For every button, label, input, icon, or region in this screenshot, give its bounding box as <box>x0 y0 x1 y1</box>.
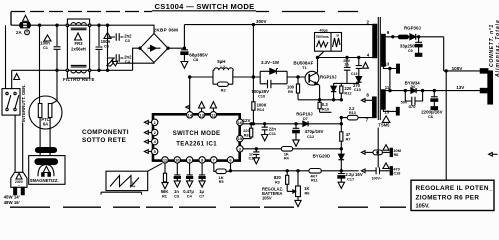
pin 3 <box>237 146 243 152</box>
resistor R5 1K between pin7 and pin6 <box>214 163 231 184</box>
svg-text:RGP10J: RGP10J <box>320 75 337 80</box>
diode D6 BYW34 <box>405 80 421 93</box>
pin 11 <box>162 157 168 163</box>
svg-text:R6: R6 <box>305 191 311 196</box>
transformer core <box>378 17 380 120</box>
oscillogram inset 40us 750Vrms <box>315 29 342 58</box>
capacitor C13 1n2kV <box>343 58 357 84</box>
wire bridge DC plus <box>168 25 184 49</box>
connector CN1 <box>480 69 492 104</box>
resistor R10 0.3 <box>318 102 329 111</box>
label power ratings <box>4 195 20 205</box>
svg-text:10: 10 <box>175 158 180 163</box>
capacitor C16 470 50V across diode <box>401 91 423 110</box>
svg-text:15: 15 <box>238 136 243 141</box>
pin 16 <box>237 119 243 125</box>
svg-text:8: 8 <box>366 92 369 97</box>
transformer feedback winding 8-7 <box>373 97 377 118</box>
svg-text:R11: R11 <box>311 179 318 183</box>
svg-text:C15: C15 <box>354 87 362 92</box>
pin 9 <box>186 157 192 163</box>
svg-text:C13: C13 <box>351 72 358 76</box>
resistor R7 47 <box>340 132 351 142</box>
capacitor C1 100n <box>40 25 60 70</box>
note box REGOLARE <box>411 180 494 210</box>
svg-text:2KBP 06M: 2KBP 06M <box>154 28 179 33</box>
pin 1 <box>144 119 158 125</box>
svg-text:D6: D6 <box>411 85 416 89</box>
svg-text:100V~: 100V~ <box>372 176 383 180</box>
capacitor C6 100n <box>101 25 111 70</box>
capacitor C14 with diode 270 C15 <box>353 58 368 93</box>
diode D9 RGP10J <box>320 75 337 100</box>
wire live rail <box>11 25 154 33</box>
degauss SMAGNETIZZ box <box>29 156 65 185</box>
svg-text:1n: 1n <box>249 151 254 156</box>
capacitor C8 68u385V <box>181 47 209 68</box>
pin 7 <box>211 157 217 163</box>
svg-text:COMPONENTI: COMPONENTI <box>82 129 129 136</box>
svg-text:INTERRUTT. GEN.: INTERRUTT. GEN. <box>21 84 26 122</box>
label CONNETT n1 Alimentaz Totale <box>489 19 499 78</box>
svg-text:750Vrms: 750Vrms <box>316 35 329 39</box>
svg-text:SWITCH MODE: SWITCH MODE <box>173 131 221 137</box>
svg-text:ZIOMETRO R6 PER: ZIOMETRO R6 PER <box>416 195 480 202</box>
pin 14 with feed wire <box>186 77 193 118</box>
label FILTRO RETE <box>63 77 95 82</box>
wire drive line <box>189 76 306 78</box>
wire pin6 down <box>229 163 231 172</box>
svg-text:R8: R8 <box>394 153 399 157</box>
svg-text:TSM5: TSM5 <box>378 123 390 128</box>
svg-text:3.3V–1W: 3.3V–1W <box>261 60 280 65</box>
wire degauss tap <box>39 25 41 97</box>
svg-text:13: 13 <box>385 62 390 67</box>
node 105V <box>444 37 481 72</box>
svg-text:TEA2261 IC1: TEA2261 IC1 <box>176 141 217 147</box>
svg-text:freq.: freq. <box>130 184 137 188</box>
svg-text:C3: C3 <box>125 38 131 43</box>
svg-text:R4: R4 <box>284 157 290 161</box>
capacitor C17 2.2u16V <box>338 171 363 189</box>
svg-text:6A: 6A <box>43 122 48 127</box>
svg-text:BYG20D: BYG20D <box>313 154 331 159</box>
svg-text:33µ250V: 33µ250V <box>400 43 418 48</box>
svg-text:FR3: FR3 <box>75 41 84 46</box>
svg-text:15: 15 <box>384 110 389 115</box>
label REGOLAZ BATTERIA 105V <box>262 187 283 201</box>
resistor R1 56K on pin 11 <box>161 163 169 198</box>
resistor R12 220 <box>340 83 353 99</box>
svg-text:RGP30J: RGP30J <box>404 26 421 31</box>
svg-text:C3: C3 <box>174 194 180 199</box>
svg-text:C14: C14 <box>249 157 257 161</box>
degauss coil bar <box>36 148 57 156</box>
pin 2 <box>144 129 158 135</box>
pin 15 <box>237 135 243 141</box>
sawtooth generator box <box>101 171 148 194</box>
pin 12 with up arrow <box>210 102 216 118</box>
pin 5 <box>144 148 158 154</box>
transformer TR1 primary winding <box>367 19 377 57</box>
pin 13 with up arrow <box>198 102 204 118</box>
svg-text:C9: C9 <box>408 49 413 53</box>
capacitor C18 470 100V isolation <box>361 163 400 180</box>
svg-text:50V: 50V <box>401 100 408 104</box>
wire snubber bus <box>298 83 359 101</box>
IC U1 TEA2261 box <box>153 114 240 160</box>
svg-text:CS1004 — SWITCH MODE: CS1004 — SWITCH MODE <box>154 2 254 11</box>
resistor R3 820 <box>274 171 289 192</box>
capacitor C2 <box>96 25 103 70</box>
resistor R13 2.2 to pin 7 winding <box>341 106 372 123</box>
svg-text:4: 4 <box>367 52 370 57</box>
wire callout to note box <box>445 71 447 180</box>
mains plug 230V <box>11 115 27 195</box>
dashed bottom boundary <box>10 206 406 208</box>
wire bridge DC minus <box>112 61 154 66</box>
svg-text:R8: R8 <box>244 133 249 137</box>
resistor R4 1K on pin3 line <box>281 147 292 161</box>
svg-text:C18: C18 <box>394 172 401 176</box>
svg-text:FILTRO RETE: FILTRO RETE <box>63 77 95 82</box>
capacitor C9 33u250V <box>400 36 422 57</box>
PTC 6A degauss <box>29 70 62 147</box>
svg-text:105V: 105V <box>262 195 272 200</box>
svg-text:R14: R14 <box>257 107 265 112</box>
switch S1 interruttore generale <box>2 25 20 115</box>
svg-text:R5: R5 <box>219 180 224 184</box>
svg-text:R12: R12 <box>344 91 352 96</box>
svg-text:11: 11 <box>385 85 390 90</box>
capacitor C14b 1n on pin3 line <box>249 149 260 164</box>
svg-text:C4: C4 <box>187 194 193 199</box>
resistor R11 4K7 <box>309 169 321 183</box>
wire secondary ground drop <box>377 128 379 168</box>
svg-text:SMAGNETIZZ.: SMAGNETIZZ. <box>30 178 59 183</box>
svg-text:2A: 2A <box>16 30 22 35</box>
svg-text:R1: R1 <box>162 194 168 199</box>
diode D10 BYG20D <box>313 154 345 160</box>
svg-text:L2: L2 <box>221 65 225 69</box>
svg-text:R7: R7 <box>346 137 351 142</box>
svg-text:40µs: 40µs <box>319 29 328 33</box>
node 300V rail <box>184 19 372 26</box>
wire neutral rail <box>12 48 140 70</box>
svg-text:12V: 12V <box>243 118 251 123</box>
svg-text:2x56eH: 2x56eH <box>71 46 86 51</box>
svg-text:C1: C1 <box>43 45 49 50</box>
pin 6 <box>227 157 233 163</box>
svg-text:13: 13 <box>199 112 204 117</box>
wire pin 8 winding with arrow <box>361 92 372 102</box>
svg-text:C11: C11 <box>269 131 277 136</box>
pin 10 <box>174 157 180 163</box>
ground arrow near C4 <box>107 59 114 67</box>
wire pin15 <box>243 138 251 140</box>
node junctions input rails <box>38 24 108 71</box>
potentiometer R6 1K <box>287 171 310 207</box>
wire startup dropper <box>252 25 254 124</box>
svg-text:1n: 1n <box>344 62 349 67</box>
svg-text:Alimentaz. Totale: Alimentaz. Totale <box>495 19 499 78</box>
resistor R14 100K <box>252 102 267 112</box>
node 12V rail <box>243 118 343 125</box>
svg-text:R13: R13 <box>349 111 356 115</box>
wire pin11 to sawtooth <box>148 163 163 171</box>
transformer secondary winding 9-13 <box>382 30 390 67</box>
resistor R8 220 <box>243 124 253 139</box>
svg-text:48W 16’: 48W 16’ <box>4 200 20 205</box>
svg-text:C8: C8 <box>193 57 199 62</box>
dashed top boundary <box>11 12 358 26</box>
wire primary return <box>318 52 373 58</box>
wire pin 15 return <box>383 107 399 115</box>
svg-text:105V: 105V <box>452 66 464 71</box>
svg-text:R9: R9 <box>288 89 294 94</box>
bridge rectifier 2KBP06M <box>139 28 178 63</box>
svg-text:C7: C7 <box>199 194 204 199</box>
wire pin3 line <box>243 148 342 150</box>
svg-text:2: 2 <box>367 19 370 24</box>
label COMPONENTI SOTTO RETE <box>82 129 129 144</box>
capacitor C3 2n2 <box>108 33 133 43</box>
svg-text:REGOLARE IL POTEN_: REGOLARE IL POTEN_ <box>416 185 493 192</box>
svg-text:C10: C10 <box>258 94 265 99</box>
label INTERRUTT GEN <box>21 84 26 122</box>
svg-text:C12: C12 <box>307 134 315 139</box>
wire pin 13 return <box>383 64 399 90</box>
svg-text:SOTTO RETE: SOTTO RETE <box>82 137 127 144</box>
resistor R9 100 <box>287 76 300 100</box>
pin 4 <box>144 138 158 144</box>
wire Vcc feed vertical <box>340 116 342 170</box>
wire hot ground rail <box>231 170 359 172</box>
resistor R8b 10M isolation <box>361 145 401 157</box>
svg-text:5µH: 5µH <box>217 59 225 64</box>
svg-text:R10: R10 <box>322 106 329 111</box>
svg-text:C17: C17 <box>347 177 354 182</box>
svg-text:14: 14 <box>187 112 192 117</box>
capacitor C11 22n <box>262 124 277 141</box>
svg-text:T1: T1 <box>302 65 307 70</box>
capacitor C6 2200u16V <box>421 91 442 120</box>
capacitor C4b 0.47u on pin 9 <box>183 163 194 198</box>
line filter FR3 box <box>66 19 91 78</box>
transformer secondary winding 11-15 <box>382 85 390 115</box>
pin 8 <box>199 157 205 163</box>
warning TSM5 <box>378 116 390 128</box>
diode D5 RGP30J <box>404 26 444 40</box>
capacitor C12 470u16V <box>293 124 324 147</box>
svg-text:45W 14’: 45W 14’ <box>4 195 20 200</box>
fuse F1 2A <box>16 23 31 35</box>
svg-text:R3: R3 <box>275 180 280 184</box>
wire pin 9 output <box>385 35 410 39</box>
capacitor C7 1u on pin 8 <box>199 163 205 198</box>
svg-text:300V: 300V <box>256 19 267 24</box>
svg-text:C6: C6 <box>104 44 110 49</box>
svg-text:M: M <box>337 34 340 38</box>
transistor T1 BU508AF <box>293 61 319 86</box>
arrow output right <box>489 153 498 157</box>
inductor L2 5uH with resistor R2 <box>213 59 234 92</box>
warning triangle at switch <box>14 74 20 80</box>
title CS1004 SWITCH MODE <box>152 2 256 11</box>
svg-text:C6: C6 <box>428 114 434 119</box>
svg-text:13V: 13V <box>456 85 465 90</box>
zener D4 3.3V-1W with capacitor C10 100u35V <box>251 60 287 99</box>
diode D7 RGP10J on 12V rail <box>296 112 313 127</box>
svg-text:105V.: 105V. <box>416 204 431 210</box>
capacitor C4 2n2 <box>108 54 133 64</box>
warning triangle above fuse <box>23 15 29 21</box>
svg-text:D7: D7 <box>303 117 308 121</box>
wire emitter <box>318 85 331 112</box>
capacitor C3b 1n on pin 10 <box>174 163 180 198</box>
svg-text:470: 470 <box>409 104 417 109</box>
wire collector <box>316 56 318 72</box>
svg-text:R2: R2 <box>221 87 227 92</box>
svg-text:12: 12 <box>211 112 216 117</box>
svg-text:9: 9 <box>387 30 390 35</box>
node 13V rail <box>385 85 480 92</box>
